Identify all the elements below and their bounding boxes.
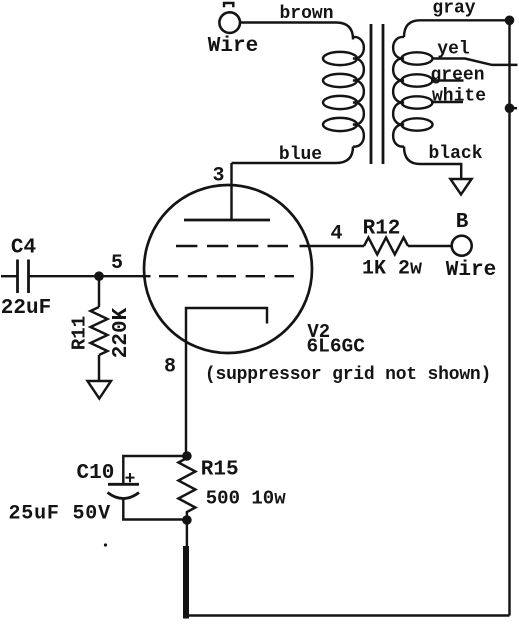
ground GND1 (black lead) <box>450 179 471 195</box>
svg-text:220K: 220K <box>110 307 133 358</box>
junction dot node grid (C4/R11) <box>94 271 104 281</box>
svg-text:5: 5 <box>111 252 123 275</box>
tube V2 plate lead from blue wire, pin 3 <box>230 163 232 220</box>
svg-text:22uF: 22uF <box>1 297 51 320</box>
wire bottom return <box>186 614 510 616</box>
wire R11 to ground <box>98 355 100 381</box>
svg-text:4: 4 <box>330 223 342 246</box>
svg-text:green: green <box>430 66 484 86</box>
junction dot right bus top (gray) <box>505 15 515 25</box>
wire brown: terminal to transformer primary top <box>240 23 353 40</box>
wire junction to C10 top <box>123 456 187 484</box>
transformer T1 secondary winding loops <box>402 52 433 130</box>
wire right bus vertical <box>508 20 510 615</box>
resistor R11 zigzag <box>91 307 108 355</box>
svg-text:1K 2w: 1K 2w <box>362 258 422 281</box>
wire junction down to R11 <box>98 276 100 307</box>
wire blue: primary bottom to tube pin 3 <box>232 147 354 164</box>
tube V2 envelope circle <box>144 185 312 353</box>
wire R12 to terminal B <box>408 245 452 247</box>
tube V2 screen grid (dashed) <box>176 245 288 247</box>
transformer T1 secondary winding arcs <box>393 37 404 147</box>
svg-text:6L6GC: 6L6GC <box>306 336 365 358</box>
svg-text:B: B <box>456 211 469 234</box>
wire pin 4 to R12 <box>300 245 365 247</box>
junction dot cathode top <box>182 451 192 461</box>
svg-text:8: 8 <box>164 356 176 379</box>
transformer T1 primary winding arcs <box>353 37 364 147</box>
junction dot right bus with stub <box>505 103 517 113</box>
terminal TP1 bracket flag <box>224 3 233 7</box>
wire junction to thick bus <box>186 520 188 547</box>
svg-text:R15: R15 <box>201 459 239 482</box>
wire C4 to tube pin 5 <box>29 275 151 277</box>
wire black: secondary bottom to ground <box>404 147 461 179</box>
svg-text:500 10w: 500 10w <box>206 488 286 510</box>
capacitor C10 top plate <box>108 483 139 486</box>
svg-text:yel: yel <box>437 40 470 60</box>
wire input stub to C4 <box>1 275 17 277</box>
resistor R15 zigzag <box>178 456 195 520</box>
svg-text:Wire: Wire <box>208 35 258 58</box>
svg-text:C10: C10 <box>76 462 114 485</box>
wire gray: secondary top to right bus <box>404 20 510 37</box>
svg-text:white: white <box>432 87 486 107</box>
capacitor C10 curved plate <box>108 493 140 499</box>
resistor R12 zigzag <box>364 238 408 255</box>
svg-text:Wire: Wire <box>446 259 496 282</box>
thick chassis bus bar <box>183 546 189 619</box>
svg-text:C4: C4 <box>11 237 36 260</box>
ground GND2 (R11) <box>88 381 112 399</box>
wire white tap stub <box>431 101 463 103</box>
svg-text:blue: blue <box>279 145 322 165</box>
svg-text:black: black <box>428 144 482 164</box>
capacitor C10 polarity plus <box>126 473 135 482</box>
svg-text:brown: brown <box>279 4 333 24</box>
svg-text:3: 3 <box>212 165 224 188</box>
svg-text:R12: R12 <box>363 218 401 241</box>
svg-text:R11: R11 <box>69 316 91 350</box>
tube V2 plate bar <box>184 219 270 222</box>
tube V2 cathode with hook <box>186 308 267 342</box>
svg-text:gray: gray <box>432 0 475 19</box>
wire C10 bottom to junction <box>123 499 187 520</box>
svg-text:25uF 50V: 25uF 50V <box>8 503 110 526</box>
wire pin 8 cathode lead down <box>185 342 187 456</box>
junction dot cathode bottom <box>182 515 192 525</box>
wire yel tap to right edge <box>432 59 518 65</box>
tube V2 control grid (dashed) <box>159 275 294 277</box>
svg-text:(suppressor grid not shown): (suppressor grid not shown) <box>205 365 491 385</box>
terminal TP1 "Wire" circle <box>219 12 240 33</box>
transformer T1 core <box>371 24 383 164</box>
capacitor C4 plates <box>18 260 29 294</box>
wire green tap stub <box>431 79 464 81</box>
transformer T1 primary winding loops <box>323 52 357 131</box>
terminal B circle <box>452 236 472 256</box>
stray dot mark <box>104 543 107 546</box>
